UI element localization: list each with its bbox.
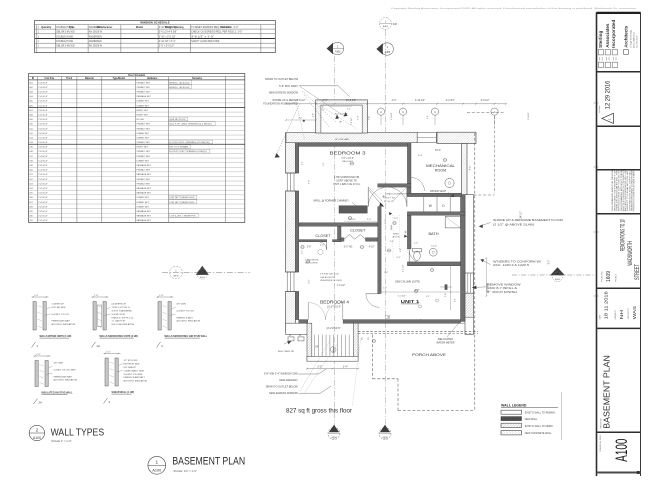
foundation repair notes [263, 77, 349, 158]
svg-text:PROJECT: PROJECT [615, 274, 617, 282]
svg-text:7'-4 3/4": 7'-4 3/4" [351, 117, 353, 125]
svg-text:2'-4"x6'-8": 2'-4"x6'-8" [38, 156, 48, 158]
svg-text:1'-2": 1'-2" [383, 288, 387, 290]
svg-text:2'-4"x6'-8": 2'-4"x6'-8" [38, 160, 48, 162]
svg-text:STREET: STREET [634, 264, 641, 280]
window schedule table [35, 21, 276, 53]
svg-text:ENTRY SET: ENTRY SET [137, 110, 149, 112]
svg-text:DRAIN TO OUTLET BELOW: DRAIN TO OUTLET BELOW [265, 77, 298, 81]
svg-text:4'-10 1/2": 4'-10 1/2" [415, 99, 425, 102]
svg-text:WALK-IN(2): WALK-IN(2) [342, 160, 353, 163]
svg-text:TO MEET EGRESS REQ. PER R311.: TO MEET EGRESS REQ. PER R311. 3'-0" [191, 27, 238, 29]
svg-text:WALL LEGEND: WALL LEGEND [501, 403, 527, 407]
svg-text:ENTRY SET: ENTRY SET [137, 114, 149, 116]
svg-text:T.4'-0": T.4'-0" [431, 245, 437, 247]
svg-text:NEW WALL: NEW WALL [525, 418, 538, 421]
svg-text:2'-6"x6'-8": 2'-6"x6'-8" [38, 119, 48, 121]
svg-text:5'-8" MIN 3'-4" WINDOW 2340: 5'-8" MIN 3'-4" WINDOW 2340 [264, 372, 298, 375]
svg-text:7'-8": 7'-8" [369, 116, 371, 121]
svg-text:3'-0": 3'-0" [309, 180, 311, 185]
svg-text:DUMMY SET: DUMMY SET [137, 105, 150, 107]
svg-text:DUMMY SET: DUMMY SET [137, 206, 150, 208]
svg-text:2'-4": 2'-4" [302, 161, 304, 165]
svg-text:PRIOR TO CONSTRUCTION START: PRIOR TO CONSTRUCTION START [633, 169, 636, 211]
svg-text:2x4 WD'T STL STL: 2x4 WD'T STL STL [52, 314, 71, 316]
svg-text:2'-6"x6'-8": 2'-6"x6'-8" [38, 174, 48, 176]
svg-text:ID: ID [32, 78, 35, 80]
basement floor plan [264, 87, 599, 415]
svg-text:Material: Material [85, 77, 94, 80]
svg-text:PRIVACY SET: PRIVACY SET [137, 81, 151, 84]
door schedule table [29, 74, 245, 223]
svg-text:NEW COLUMN (3) PTB: NEW COLUMN (3) PTB [395, 281, 420, 283]
svg-text:UNBLK'D, TOP PLT. U2: UNBLK'D, TOP PLT. U2 [112, 317, 135, 319]
svg-text:DUMMY SET: DUMMY SET [137, 197, 150, 199]
svg-text:5'-4 3/4": 5'-4 3/4" [398, 296, 406, 298]
svg-text:2x4 MTL STL STL WHS: 2x4 MTL STL STL WHS [54, 370, 77, 372]
svg-text:2'-6"x6'-8": 2'-6"x6'-8" [38, 216, 48, 218]
svg-text:2'-6"x6'-8": 2'-6"x6'-8" [38, 105, 48, 107]
svg-text:UP: UP [339, 122, 343, 124]
svg-text:2'-0"x6'-8": 2'-0"x6'-8" [38, 133, 48, 135]
svg-text:2'-6"x6'-8": 2'-6"x6'-8" [38, 188, 48, 190]
svg-text:A304: A304 [331, 436, 337, 439]
svg-text:6'-8": 6'-8" [400, 248, 402, 252]
svg-text:INSULATED ON STUD WALL: INSULATED ON STUD WALL [42, 392, 74, 395]
svg-text:TYPE X GYP BD @: TYPE X GYP BD @ [112, 307, 130, 309]
svg-text:2'-6 1/2": 2'-6 1/2" [391, 112, 393, 120]
wall legend [501, 392, 562, 440]
svg-text:UP: UP [315, 346, 319, 349]
svg-text:1 BKE WD'HR: 1 BKE WD'HR [305, 260, 319, 262]
svg-text:R.O. 3'-8 1/2": R.O. 3'-8 1/2" [335, 114, 348, 116]
svg-text:MECHANICAL: MECHANICAL [426, 164, 455, 168]
svg-text:3'-6 1/2": 3'-6 1/2" [403, 264, 405, 272]
svg-text:PASSAGE SET: PASSAGE SET [137, 187, 152, 190]
svg-text:3'-6 1/2"x4'-9 3/8": 3'-6 1/2"x4'-9 3/8" [159, 32, 177, 34]
svg-text:Quantity: Quantity [41, 26, 52, 29]
svg-text:2'-6"x6'-8": 2'-6"x6'-8" [38, 183, 48, 185]
svg-text:1'-4": 1'-4" [323, 162, 325, 166]
svg-text:CHECK CK EGRESS REQ. PER R310.: CHECK CK EGRESS REQ. PER R310.2. 3'-0" [191, 32, 242, 34]
svg-text:5 1/2": 5 1/2" [34, 295, 39, 297]
svg-text:Thick: Thick [66, 78, 73, 80]
svg-text:2'-4"x6'-8": 2'-4"x6'-8" [38, 170, 48, 172]
svg-text:A305: A305 [382, 436, 388, 439]
svg-text:FIBERGLASS BATT: FIBERGLASS BATT [52, 320, 72, 323]
svg-text:FIBERGL'S AND BATT: FIBERGL'S AND BATT [124, 376, 146, 379]
svg-text:REMOVE WINDOW: REMOVE WINDOW [487, 282, 521, 286]
svg-text:Unit Size: Unit Size [45, 77, 55, 80]
svg-text:ACOUSTIC INSULATION: ACOUSTIC INSULATION [52, 323, 76, 326]
svg-text:2'-0": 2'-0" [298, 118, 303, 120]
svg-text:ENTRY SET: ENTRY SET [137, 147, 149, 149]
svg-text:PRIVACY SET: PRIVACY SET [137, 150, 151, 153]
svg-text:2'-6"x6'-8": 2'-6"x6'-8" [38, 151, 48, 153]
svg-text:DOUBLE HUNG: DOUBLE HUNG [56, 41, 73, 43]
svg-text:SAFETY GLASS PER CODE: SAFETY GLASS PER CODE [191, 40, 220, 43]
svg-text:Associates: Associates [605, 23, 610, 48]
svg-text:3'-8 1/2" x 1'-0": 3'-8 1/2" x 1'-0" [191, 36, 214, 38]
svg-text:A KOH: A KOH [393, 235, 400, 238]
svg-text:Remarks: Remarks [192, 78, 202, 80]
svg-text:5/8" GWB: 5/8" GWB [177, 304, 187, 306]
svg-text:L AX A KOM 1/2: L AX A KOM 1/2 [320, 276, 336, 279]
svg-text:2'-4"x6'-8": 2'-4"x6'-8" [38, 179, 48, 181]
svg-text:4'-2 3/4": 4'-2 3/4" [446, 99, 455, 102]
svg-text:(2) 2'-8"x6'-8": (2) 2'-8"x6'-8" [327, 328, 341, 330]
svg-text:CMU 8-7 INFILL &: CMU 8-7 INFILL & [487, 286, 517, 290]
svg-text:AN 30026 W: AN 30026 W [89, 31, 103, 34]
svg-text:SCALE 1" = 1'-0": SCALE 1" = 1'-0" [51, 439, 71, 443]
svg-text:DRYER VENT: DRYER VENT [430, 190, 447, 193]
svg-text:CLOSET: CLOSET [315, 234, 331, 238]
svg-text:2x4 WD'T STL WHS: 2x4 WD'T STL WHS [124, 374, 143, 376]
svg-text:@ EXT. STAGGERED: @ EXT. STAGGERED [112, 310, 133, 313]
svg-text:SIM: SIM [393, 23, 397, 26]
svg-text:2'-8": 2'-8" [312, 113, 314, 118]
svg-text:WALLS WITHIN UNITS (1 HR): WALLS WITHIN UNITS (1 HR) [40, 335, 72, 338]
section cut markers A304/A305/A306 [162, 18, 397, 440]
svg-text:DUMMY SET: DUMMY SET [137, 133, 150, 135]
svg-text:W: W [429, 204, 432, 208]
svg-text:ANDERSEN: ANDERSEN [89, 26, 102, 29]
svg-text:A306: A306 [173, 274, 179, 277]
svg-text:ROOM: ROOM [435, 169, 446, 173]
svg-text:15'-1" x 15'-6": 15'-1" x 15'-6" [327, 306, 341, 308]
svg-text:PASSAGE SET: PASSAGE SET [137, 164, 152, 167]
svg-text:ACOUSTIC INSULATION: ACOUSTIC INSULATION [124, 380, 148, 383]
svg-text:2'-6"x6'-8": 2'-6"x6'-8" [38, 220, 48, 222]
svg-text:PORCH ABOVE: PORCH ABOVE [412, 353, 447, 357]
svg-text:BATH: BATH [428, 231, 438, 236]
svg-text:PASSAGE SET: PASSAGE SET [137, 192, 152, 195]
svg-text:DBL BK 6 ML WD: DBL BK 6 ML WD [56, 46, 75, 48]
svg-text:BEDROOM 4: BEDROOM 4 [320, 300, 349, 305]
svg-text:Type/Model: Type/Model [113, 78, 126, 80]
svg-text:2'-0": 2'-0" [414, 243, 418, 245]
svg-text:2'-6"x6'-8": 2'-6"x6'-8" [38, 142, 48, 144]
svg-text:EXTERIOR SIDE: EXTERIOR SIDE [124, 364, 141, 366]
svg-text:Model: Model [136, 26, 144, 29]
svg-text:PRIVACY SET: PRIVACY SET [137, 155, 151, 158]
svg-text:827 sq ft gross this floor: 827 sq ft gross this floor [286, 408, 353, 415]
svg-text:DBL BK 6 ML WD: DBL BK 6 ML WD [56, 32, 75, 34]
svg-text:SEAT: SEAT [393, 232, 399, 235]
svg-text:NEW EGRESS WINDOW: NEW EGRESS WINDOW [269, 90, 299, 94]
svg-text:ACOUSTIC INSULATION: ACOUSTIC INSULATION [177, 320, 201, 323]
svg-text:PRIVACY SET: PRIVACY SET [137, 182, 151, 185]
svg-text:1'-6": 1'-6" [302, 250, 304, 254]
svg-text:PRIVACY SET: PRIVACY SET [137, 90, 151, 93]
svg-text:Incorporated: Incorporated [611, 20, 616, 48]
svg-text:2'-6": 2'-6" [455, 298, 457, 302]
svg-text:BEDROOM 3: BEDROOM 3 [330, 150, 367, 155]
svg-text:2'-0"x6'-8": 2'-0"x6'-8" [38, 101, 48, 103]
svg-text:12 29 2016: 12 29 2016 [605, 81, 612, 110]
svg-text:10 T @ 10": 10 T @ 10" [384, 201, 395, 203]
svg-text:4'-2": 4'-2" [392, 99, 397, 102]
svg-text:2'-10" HWF 5 3/8": 2'-10" HWF 5 3/8" [159, 27, 177, 29]
svg-text:PRIVACY SET: PRIVACY SET [137, 123, 151, 126]
svg-text:UNDERSIDE OF DECK: UNDERSIDE OF DECK [320, 280, 343, 282]
svg-text:2'-10": 2'-10" [385, 219, 387, 224]
svg-text:5/8" GWB: 5/8" GWB [54, 363, 64, 365]
svg-text:DUMMY SET: DUMMY SET [137, 202, 150, 204]
svg-text:2x4 WD STUD: 2x4 WD STUD [112, 314, 126, 316]
svg-text:WAS: WAS [632, 306, 638, 319]
svg-text:PRIVACY SET: PRIVACY SET [137, 127, 151, 130]
svg-text:8'-4": 8'-4" [469, 166, 471, 171]
svg-text:2'-10" x 3'-5 1/2": 2'-10" x 3'-5 1/2" [159, 36, 176, 38]
svg-text:2'-8": 2'-8" [445, 293, 447, 297]
svg-text:FIBERGLASS BATT: FIBERGLASS BATT [54, 375, 74, 378]
svg-text:DRAWN BY: DRAWN BY [614, 309, 617, 319]
svg-text:16'-2 3/4": 16'-2 3/4" [346, 99, 356, 102]
svg-text:617.555.0100: 617.555.0100 [637, 35, 639, 48]
svg-text:EXT'G TO REMAIN: EXT'G TO REMAIN [169, 146, 188, 149]
svg-text:3'-1": 3'-1" [426, 296, 430, 298]
svg-text:Sterling: Sterling [598, 31, 603, 48]
drawing titles: WALL TYPES / BASEMENT PLAN [29, 425, 245, 474]
svg-text:(2)LAYERS 5/8": (2)LAYERS 5/8" [112, 303, 127, 306]
svg-text:ASC. 1220.3 & 1220.5: ASC. 1220.3 & 1220.5 [493, 263, 530, 267]
svg-text:1 LAYER 5/8": 1 LAYER 5/8" [52, 303, 65, 306]
svg-text:AN 30026 W: AN 30026 W [89, 45, 103, 48]
svg-text:5 1/2": 5 1/2" [36, 354, 41, 356]
svg-text:PRIVACY SET: PRIVACY SET [137, 141, 151, 144]
svg-text:Architects: Architects [624, 25, 629, 48]
svg-text:3'-0 1/2": 3'-0 1/2" [528, 112, 530, 120]
svg-text:UNIT 1 IEB 2 CE 13 CA: UNIT 1 IEB 2 CE 13 CA [333, 183, 360, 186]
svg-text:WALLS SEPARATING 1HR STUD WALL: WALLS SEPARATING 1HR STUD WALL [165, 335, 208, 338]
svg-text:2'-8": 2'-8" [390, 241, 394, 243]
svg-text:7'-8 1/2": 7'-8 1/2" [297, 99, 306, 102]
svg-text:2'-8"x6'-8": 2'-8"x6'-8" [38, 110, 48, 112]
svg-text:NH: NH [619, 309, 625, 319]
svg-text:ANDERSEN: ANDERSEN [89, 40, 102, 43]
svg-text:WATER METER: WATER METER [436, 342, 454, 345]
svg-text:1A: 1A [96, 344, 100, 348]
svg-text:SHORE UP & REFRAME BASEMENT FL: SHORE UP & REFRAME BASEMENT FLOOR [493, 218, 563, 222]
svg-text:3'-9 1/2": 3'-9 1/2" [481, 99, 490, 102]
svg-text:Door Schedule: Door Schedule [128, 74, 146, 77]
svg-text:DRAIN TO OUTLET BELOW: DRAIN TO OUTLET BELOW [266, 386, 299, 389]
svg-text:WALL TYPES: WALL TYPES [51, 428, 105, 439]
svg-text:DUMMY SET: DUMMY SET [137, 137, 150, 139]
svg-text:BASEMENT PLAN: BASEMENT PLAN [602, 355, 611, 429]
svg-text:DUMMY SET: DUMMY SET [137, 101, 150, 103]
svg-text:2'-6" x 3'-5 1/2": 2'-6" x 3'-5 1/2" [159, 46, 175, 48]
svg-text:PASSAGE SET: PASSAGE SET [137, 215, 152, 218]
svg-text:SHORE UP & REPAIR: SHORE UP & REPAIR [272, 98, 298, 102]
svg-text:3'-0": 3'-0" [309, 279, 311, 284]
svg-text:Copyright Sterling Associates: Copyright Sterling Associates Incorporat… [391, 7, 637, 10]
svg-text:DOUBLE HUNG: DOUBLE HUNG [56, 27, 73, 29]
svg-text:2'-10 1/2" x 3'-1": 2'-10 1/2" x 3'-1" [159, 41, 176, 43]
svg-text:BASEMENT PLAN: BASEMENT PLAN [172, 456, 245, 468]
svg-text:NEW AREAWAY: NEW AREAWAY [279, 379, 298, 382]
svg-text:ACOUSTIC INSULATION: ACOUSTIC INSULATION [54, 379, 78, 382]
svg-text:WINDOW SCHEDULE: WINDOW SCHEDULE [140, 21, 169, 25]
svg-text:EXIST'G WALL TO REMAIN: EXIST'G WALL TO REMAIN [525, 412, 555, 415]
svg-text:2'-6"x6'-8": 2'-6"x6'-8" [38, 137, 48, 139]
svg-text:2'-4"x6'-8": 2'-4"x6'-8" [38, 82, 48, 84]
svg-text:PASSAGE SET: PASSAGE SET [137, 95, 152, 98]
svg-text:7'-4": 7'-4" [358, 115, 360, 120]
svg-text:6'-0": 6'-0" [320, 245, 324, 247]
svg-text:PRIVACY SET: PRIVACY SET [137, 178, 151, 181]
svg-text:2'-6": 2'-6" [307, 247, 312, 249]
svg-text:1609: 1609 [606, 271, 612, 282]
svg-text:18 11 2016: 18 11 2016 [603, 291, 609, 319]
svg-text:1'-6": 1'-6" [384, 272, 388, 274]
svg-text:A300: A300 [383, 25, 389, 28]
svg-text:INFILL @ FORMER CHIMNEY: INFILL @ FORMER CHIMNEY [313, 198, 349, 202]
svg-text:14 High Street Bldg: 14 High Street Bldg [630, 30, 633, 47]
svg-text:2'-6"x6'-8": 2'-6"x6'-8" [38, 91, 48, 93]
svg-text:P4'-6": P4'-6" [435, 150, 441, 152]
svg-text:A306: A306 [335, 50, 341, 53]
svg-text:Hardware: Hardware [147, 78, 158, 80]
svg-text:2'-8": 2'-8" [323, 105, 325, 110]
svg-text:5'-8" MIN. AWAY: 5'-8" MIN. AWAY [279, 84, 298, 88]
title block: Sterling Associates Incorporated / A100 [597, 12, 641, 476]
svg-text:SB&F: SB&F [391, 224, 393, 230]
svg-text:DRAWING No. 2018-4: DRAWING No. 2018-4 [599, 435, 602, 452]
svg-text:16'-3 3/4" ARO: 16'-3 3/4" ARO [335, 138, 350, 141]
svg-text:3'-0": 3'-0" [317, 366, 322, 369]
svg-text:1 B KUN OWL 2 CA: 1 B KUN OWL 2 CA [320, 273, 339, 276]
svg-text:2'-4": 2'-4" [427, 115, 429, 119]
svg-text:1: 1 [156, 459, 159, 464]
svg-text:PASSAGE SET: PASSAGE SET [137, 173, 152, 176]
svg-text:NO HW: NO HW [137, 119, 144, 121]
svg-text:PASSAGE SET: PASSAGE SET [137, 219, 152, 222]
svg-text:2'-6"x6'-8": 2'-6"x6'-8" [38, 124, 48, 126]
svg-text:4'-10": 4'-10" [369, 247, 375, 249]
wall type details 1,1A,2,2A,3 [32, 295, 208, 405]
svg-text:PRIVACY SET: PRIVACY SET [137, 169, 151, 172]
svg-text:3'-4": 3'-4" [343, 366, 348, 369]
svg-text:2'-4"x6'-8": 2'-4"x6'-8" [38, 202, 48, 204]
svg-text:PROJECT NO: PROJECT NO [602, 270, 604, 282]
svg-text:DOUBLE HUNG: DOUBLE HUNG [56, 36, 73, 38]
svg-text:EXIST'G WALL TO DEMO: EXIST'G WALL TO DEMO [525, 425, 553, 428]
svg-text:A100: A100 [152, 469, 161, 473]
svg-text:1/2" STUD WD: 1/2" STUD WD [124, 360, 138, 362]
svg-text:2'-6"x6'-8": 2'-6"x6'-8" [38, 96, 48, 98]
svg-text:3'-3": 3'-3" [394, 218, 398, 220]
svg-text:DUMMY SET: DUMMY SET [137, 160, 150, 162]
svg-text:A100: A100 [612, 439, 631, 462]
svg-text:2'-8"x6'-8": 2'-8"x6'-8" [38, 114, 48, 116]
svg-text:5 1/2": 5 1/2" [94, 295, 99, 297]
svg-text:PRIVACY SET: PRIVACY SET [137, 86, 151, 89]
svg-text:5 1/2": 5 1/2" [159, 295, 164, 297]
svg-text:7'-2 1/2": 7'-2 1/2" [337, 285, 346, 287]
svg-text:6'-0" HD: 6'-0" HD [344, 247, 353, 249]
svg-text:2A: 2A [38, 401, 42, 405]
svg-text:5'-0": 5'-0" [549, 260, 551, 265]
svg-text:(2 1/2" @ ABOVE SLAB): (2 1/2" @ ABOVE SLAB) [493, 223, 534, 227]
svg-text:2'-6"x6'-8": 2'-6"x6'-8" [38, 206, 48, 208]
svg-text:1 L CAVITY BT: 1 L CAVITY BT [112, 320, 127, 323]
svg-text:7'-9" x 15'-2": 7'-9" x 15'-2" [341, 158, 354, 160]
svg-text:2'-4"x6'-8": 2'-4"x6'-8" [38, 87, 48, 89]
svg-text:WADSWORTH: WADSWORTH [627, 241, 634, 266]
svg-text:CLEAR UNBLK TRIM: CLEAR UNBLK TRIM [124, 369, 144, 372]
svg-text:3'-6": 3'-6" [323, 99, 328, 102]
svg-text:SCALE: 1/4" = 1'-: SCALE: 1/4" = 1'-0" [173, 469, 196, 473]
svg-text:VEA/COLUMN KPTB: VEA/COLUMN KPTB [386, 193, 407, 196]
svg-text:Boston MA 02110: Boston MA 02110 [633, 31, 636, 48]
svg-text:W'NDERS TO CONFORM W/: W'NDERS TO CONFORM W/ [493, 259, 541, 263]
svg-text:2'-6"x6'-8": 2'-6"x6'-8" [38, 197, 48, 199]
svg-text:BLK. DGE INSULATION: BLK. DGE INSULATION [112, 323, 135, 326]
svg-text:A305: A305 [385, 51, 391, 54]
svg-text:NEW CONCRETE WALL: NEW CONCRETE WALL [525, 432, 552, 435]
svg-text:4'-2": 4'-2" [397, 257, 401, 259]
svg-text:NEW EGRESS WINDOW: NEW EGRESS WINDOW [269, 392, 298, 395]
svg-text:A100: A100 [33, 436, 41, 440]
svg-text:9'-4": 9'-4" [418, 155, 423, 157]
svg-text:mark date: mark date [598, 105, 601, 113]
svg-text:CLOSET: CLOSET [350, 228, 366, 232]
svg-text:ELEC SERV DE: ELEC SERV DE [278, 351, 294, 353]
svg-text:5/8" GWB BT: 5/8" GWB BT [124, 367, 137, 369]
svg-text:FIBERGL'S BATT: FIBERGL'S BATT [177, 316, 194, 319]
svg-text:PASSAGE SET: PASSAGE SET [137, 210, 152, 213]
svg-text:2'-8"x6'-8": 2'-8"x6'-8" [38, 147, 48, 149]
svg-text:2x4 WD'T STL STL: 2x4 WD'T STL STL [177, 311, 196, 313]
svg-text:2'-6"x6'-8": 2'-6"x6'-8" [38, 165, 48, 167]
svg-text:2'-8"x6'-8": 2'-8"x6'-8" [38, 211, 48, 213]
svg-text:GYP. EA. SIDE: GYP. EA. SIDE [52, 306, 67, 309]
svg-text:2'-6"x6'-8": 2'-6"x6'-8" [38, 193, 48, 195]
svg-text:5 1/2": 5 1/2" [106, 351, 111, 353]
svg-text:2'-0": 2'-0" [367, 219, 372, 221]
svg-text:8" JOCO FINISH: 8" JOCO FINISH [487, 290, 517, 294]
svg-text:SHEAR WALL (1 HR): SHEAR WALL (1 HR) [112, 391, 135, 394]
svg-text:ANDERSEN: ANDERSEN [89, 35, 102, 38]
svg-text:CHECKED BY: CHECKED BY [628, 307, 630, 319]
svg-text:5 R @ 7 3/4": 5 R @ 7 3/4" [384, 198, 396, 200]
svg-text:WALLS SEPARATING UNITS (2 HR): WALLS SEPARATING UNITS (2 HR) [100, 335, 139, 338]
svg-text:2'-6"x6'-8": 2'-6"x6'-8" [38, 128, 48, 130]
svg-text:1'-4": 1'-4" [347, 109, 351, 111]
svg-text:RENOVATIONS TO 10: RENOVATIONS TO 10 [620, 219, 627, 251]
